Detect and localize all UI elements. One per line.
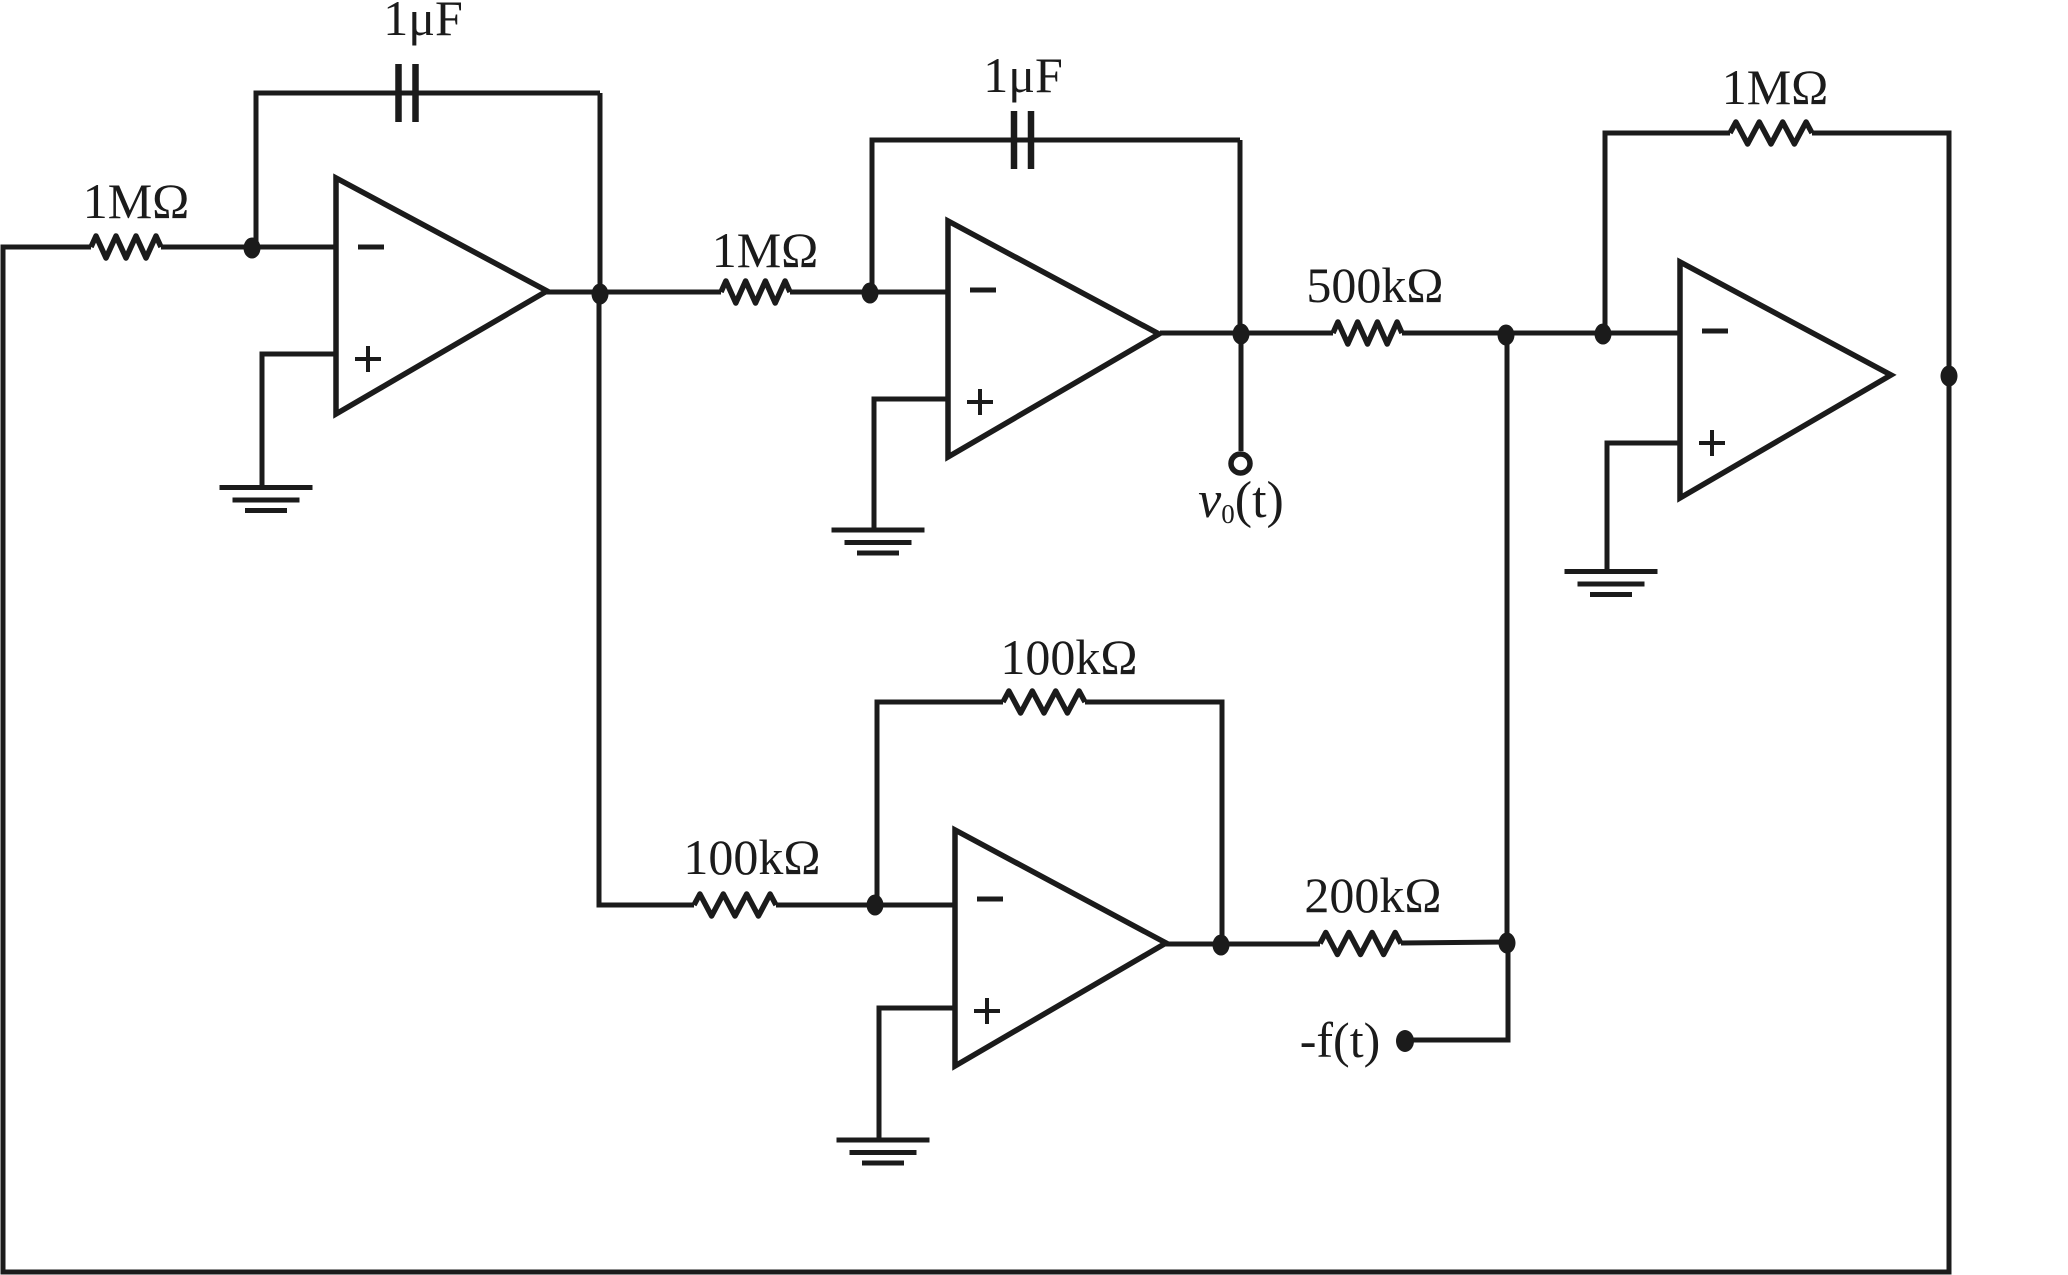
wire: C1 right side down to U1 output node [598,93,603,292]
wire: node F up to U3 feedback [1605,133,1730,333]
svg-text:500kΩ: 500kΩ [1306,257,1443,313]
node H junction dot (U4 inverting input) [867,895,884,916]
op-amp U1 [336,178,547,414]
op-amp U4 [955,830,1166,1066]
terminal dot -f(t) input [1396,1030,1414,1052]
svg-text:v0(t): v0(t) [1198,472,1284,529]
wire: U3 non-inverting input to ground stem [1607,443,1680,571]
wire: R2 to U2 inverting input [790,290,948,295]
node E junction dot (500k / 200k / -f(t) tie point) [1498,325,1515,346]
wire: R4 to right vertical, down to U3 output [1812,133,1949,375]
node B dot (U1 output) [592,284,609,305]
op-amp U3 [1680,262,1891,498]
resistor R4 [1730,122,1812,144]
svg-text:1μF: 1μF [383,0,463,46]
wire: U4 output to 200k resistor [1162,942,1320,947]
wire: R7 to node E column [1401,942,1507,943]
node G dot (U3 output) [1941,366,1958,387]
node I dot (U4 output) [1213,935,1230,956]
ground G1 [220,485,313,490]
wire: R6 to right vertical, down to U4 output [1085,702,1222,944]
capacitor C2 [1011,111,1018,169]
wire: R1 to inverting input of U1 [161,245,336,250]
wire: R3 to U3 inverting input [1402,331,1680,336]
wire: U1 output branch down to U4 input resistor [599,292,694,905]
svg-text:200kΩ: 200kΩ [1304,867,1441,923]
svg-text:1μF: 1μF [983,47,1063,103]
wire: feedback branch from node C up and over to U2 output [872,140,1240,292]
svg-text:1MΩ: 1MΩ [712,222,819,278]
wire: U1 output to U2 inverting input [545,290,721,295]
terminal: open circle output v0(t) [1231,454,1250,473]
wire: U2 output across to U3 inverting input [1160,331,1333,336]
node F junction dot (U3 inverting input feedback tap) [1595,324,1612,345]
svg-text:1MΩ: 1MΩ [83,173,190,229]
node A junction dot (U1 inverting input) [244,238,261,259]
wire: stub down from node D to output terminal [1239,334,1244,451]
wire: outer feedback loop (op-amp U3 output -> bottom -> left edge -> input) [3,247,1949,1272]
wire: feedback branch from node H up and over to U4 output [877,702,1003,904]
node D dot (U2 output) [1233,324,1250,345]
ground G4 [837,1138,930,1143]
svg-text:1MΩ: 1MΩ [1722,59,1829,115]
wire: U2 non-inverting input to ground stem [874,399,948,529]
wire: R5 to U4 inverting input [776,903,955,908]
resistor R3 [1333,322,1402,344]
ground G3 [1565,569,1658,574]
wire: C2 right side down to U2 output node [1238,140,1243,333]
wire: feedback branch from node A up and over to U1 output [256,93,600,247]
svg-text:100kΩ: 100kΩ [1000,629,1137,685]
wire: U1 non-inverting input to ground stem [262,354,336,487]
resistor R7 [1320,933,1401,955]
svg-text:100kΩ: 100kΩ [683,829,820,885]
node C junction dot (U2 inverting input) [862,283,879,304]
resistor R6 [1003,691,1085,713]
wire: U4 non-inverting input to ground stem [879,1008,955,1140]
capacitor C1 [395,64,402,122]
op-amp U2 [948,221,1159,457]
svg-text:-f(t): -f(t) [1300,1012,1381,1068]
node J junction dot (200k / -f(t) corner) [1499,933,1516,954]
wire: node E down to 200k node [1505,334,1510,941]
wire: node J down and left to -f(t) terminal [1405,943,1508,1040]
resistor R1 [91,236,161,258]
ground G2 [832,528,925,533]
resistor R2 [721,281,790,303]
resistor R5 [694,894,776,916]
